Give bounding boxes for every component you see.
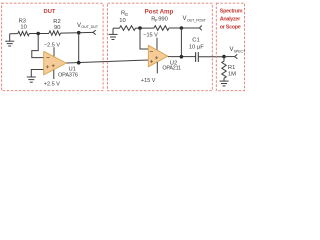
node U2 output junction [180, 55, 184, 59]
svg-text:10: 10 [119, 18, 125, 24]
svg-text:+15 V: +15 V [141, 78, 156, 84]
svg-text:Spectrum: Spectrum [220, 9, 243, 15]
wire U1 output to U2 + input [66, 60, 148, 63]
svg-text:10: 10 [20, 24, 26, 30]
wire U1 inverting input from junction [32, 34, 44, 58]
wire -15V stub [156, 38, 158, 50]
svg-text:−2.5 V: −2.5 V [44, 42, 60, 48]
wire RG to RF [136, 27, 155, 29]
svg-text:Analyzer: Analyzer [220, 16, 241, 22]
svg-text:OUT_POST: OUT_POST [187, 18, 207, 22]
wire +2.5V stub [53, 70, 55, 79]
DUT dashed box [2, 3, 104, 91]
wire RF to VOUT_POST connector [169, 27, 200, 29]
svg-text:DUT: DUT [44, 9, 56, 15]
ground G1 (left end of DUT divider) [5, 34, 14, 46]
svg-text:Post Amp: Post Amp [145, 9, 174, 16]
resistor RG [120, 26, 136, 31]
svg-text:OPA376: OPA376 [58, 72, 78, 78]
Spectrum Analyzer dashed box [216, 3, 244, 91]
svg-text:−15 V: −15 V [143, 32, 158, 38]
wire R2 to VOUT_DUT connector [61, 31, 94, 34]
svg-text:G: G [125, 12, 128, 17]
Post Amp dashed box [107, 3, 212, 91]
wire +15V stub [156, 62, 158, 73]
wire -2.5V stub [53, 47, 55, 56]
wire VOUT_DUT node down to U1 output [78, 33, 80, 63]
svg-text:R1: R1 [228, 65, 235, 71]
resistor RF [154, 26, 169, 31]
wire C1 to spectrum analyzer [198, 56, 224, 58]
wire VSPECT connector stub [224, 56, 235, 58]
svg-text:OUT_DUT: OUT_DUT [81, 25, 98, 29]
svg-text:90: 90 [54, 25, 60, 31]
svg-text:SPECT: SPECT [234, 49, 246, 53]
connector VOUT_POST open bracket [200, 26, 202, 31]
wire G1 to R3 [10, 33, 18, 35]
node U1 output junction [77, 61, 81, 65]
resistor R3 [18, 31, 29, 35]
op-amp U1 [44, 51, 67, 75]
ground G3 (left of RG) [109, 28, 118, 39]
wire U2 inverting input from junction [140, 28, 148, 49]
svg-text:10 µF: 10 µF [189, 44, 204, 50]
svg-text:or Scope: or Scope [220, 24, 241, 30]
svg-text:C1: C1 [192, 37, 199, 43]
svg-text:OPA211: OPA211 [162, 65, 181, 71]
svg-text:+2.5 V: +2.5 V [44, 81, 60, 87]
resistor R1 (vertical) [222, 57, 226, 82]
node RG/RF junction [138, 26, 142, 30]
wire VOUT_POST node down to U2 output [180, 28, 182, 57]
wire U1 noninverting input [31, 70, 43, 78]
wire U2 output to C1 [168, 56, 196, 58]
connector VOUT_DUT open bracket [93, 30, 96, 34]
resistor R2 [49, 31, 61, 35]
svg-text:1M: 1M [228, 72, 236, 78]
svg-text:990: 990 [158, 16, 168, 22]
node VSPECT [222, 55, 226, 59]
op-amp U2 [148, 45, 168, 67]
node VOUT_POST [180, 26, 184, 30]
ground G4 (below R1) [220, 81, 229, 86]
node VOUT_DUT [77, 31, 81, 35]
connector VSPECT open bracket [235, 54, 238, 58]
capacitor C1 [196, 52, 199, 62]
node R3/R2 junction [36, 32, 40, 36]
wire R3 to R2 [29, 33, 49, 35]
wire G3 to RG [113, 27, 120, 29]
ground G2 (U1 + input) [27, 77, 36, 82]
